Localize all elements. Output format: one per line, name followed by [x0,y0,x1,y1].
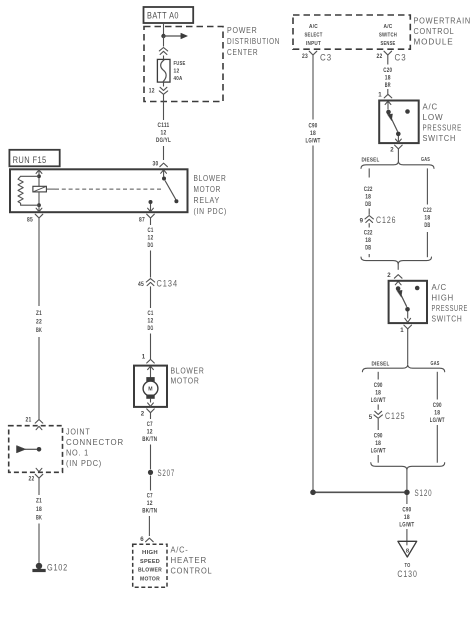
svg-text:S207: S207 [158,467,176,478]
svg-text:18: 18 [375,440,381,447]
svg-text:2: 2 [387,272,391,279]
svg-text:C7: C7 [147,421,153,428]
svg-text:Z1: Z1 [36,498,42,505]
svg-text:BLOWER: BLOWER [138,568,162,574]
svg-text:C7: C7 [147,493,153,500]
svg-text:MOTOR: MOTOR [171,376,200,386]
svg-text:C90: C90 [433,402,442,409]
svg-text:C90: C90 [374,382,383,389]
svg-text:(IN PDC): (IN PDC) [194,206,228,216]
svg-text:MODULE: MODULE [414,37,454,47]
svg-text:BK: BK [36,515,42,522]
svg-text:C90: C90 [309,123,318,130]
svg-text:RELAY: RELAY [194,195,221,205]
svg-text:HIGH: HIGH [142,550,158,556]
svg-text:C3: C3 [395,52,407,63]
svg-text:18: 18 [424,214,430,221]
svg-text:23: 23 [302,53,308,60]
svg-text:BLOWER: BLOWER [171,366,205,376]
svg-text:C22: C22 [364,186,373,193]
svg-text:12: 12 [149,88,155,95]
svg-text:12: 12 [147,500,153,507]
svg-text:LG/WT: LG/WT [399,521,414,528]
svg-text:GAS: GAS [421,157,430,163]
svg-text:RUN F15: RUN F15 [13,155,47,165]
svg-text:DG: DG [148,325,154,332]
svg-text:C90: C90 [374,433,383,440]
svg-text:DIESEL: DIESEL [362,157,380,163]
svg-text:12: 12 [161,129,167,136]
svg-text:HIGH: HIGH [432,293,455,303]
svg-text:1: 1 [142,354,146,361]
svg-text:22: 22 [36,319,42,326]
svg-text:18: 18 [385,74,391,81]
svg-text:DISTRIBUTION: DISTRIBUTION [227,36,280,46]
svg-text:18: 18 [434,409,440,416]
svg-text:18: 18 [375,389,381,396]
svg-text:CONTROL: CONTROL [171,566,213,576]
svg-text:DIESEL: DIESEL [372,361,390,367]
svg-text:GAS: GAS [431,361,440,367]
svg-text:8: 8 [406,549,410,555]
svg-text:C130: C130 [397,568,418,579]
svg-text:9: 9 [360,217,364,224]
svg-text:C134: C134 [157,278,179,289]
svg-text:12: 12 [148,234,154,241]
svg-text:C126: C126 [376,214,397,225]
svg-text:A/C: A/C [384,24,393,30]
svg-text:C90: C90 [402,507,411,514]
svg-text:LG/WT: LG/WT [306,137,321,144]
svg-text:SWITCH: SWITCH [432,314,463,324]
svg-text:LG/WT: LG/WT [371,447,386,454]
svg-text:18: 18 [365,193,371,200]
svg-text:SWITCH: SWITCH [423,133,457,143]
svg-text:2: 2 [390,147,394,154]
svg-text:5: 5 [369,414,373,421]
svg-text:HEATER: HEATER [171,555,208,565]
svg-text:DB: DB [365,244,371,251]
svg-text:BR: BR [385,82,391,89]
svg-text:21: 21 [26,417,32,424]
svg-text:45: 45 [138,281,144,288]
svg-text:22: 22 [377,53,383,60]
svg-text:PRESSURE: PRESSURE [432,303,469,313]
svg-text:C20: C20 [383,67,392,74]
svg-text:C111: C111 [158,122,170,129]
svg-text:CONNECTOR: CONNECTOR [66,437,124,447]
svg-text:Z1: Z1 [36,310,42,317]
svg-text:22: 22 [29,476,35,483]
svg-text:JOINT: JOINT [66,427,91,437]
svg-text:DB: DB [365,201,371,208]
svg-text:MOTOR: MOTOR [140,576,160,582]
svg-text:87: 87 [139,217,145,224]
svg-text:18: 18 [365,237,371,244]
svg-text:MOTOR: MOTOR [194,184,222,194]
svg-text:POWERTRAIN: POWERTRAIN [414,16,472,26]
svg-text:6: 6 [140,536,144,543]
svg-text:POWER: POWER [227,25,258,35]
svg-text:40A: 40A [174,76,183,82]
svg-text:A/C: A/C [432,282,448,292]
svg-text:A/C-: A/C- [171,545,189,555]
svg-text:C125: C125 [385,410,406,421]
svg-text:1: 1 [400,327,404,334]
svg-text:A/C: A/C [423,102,439,112]
svg-text:A/C: A/C [309,24,318,30]
svg-text:18: 18 [310,130,316,137]
svg-text:30: 30 [153,161,159,168]
svg-text:BLOWER: BLOWER [194,173,227,183]
svg-text:DB: DB [424,222,430,229]
svg-text:(IN PDC): (IN PDC) [66,458,102,468]
svg-text:BK: BK [36,327,42,334]
svg-text:12: 12 [147,428,153,435]
svg-text:BK/TN: BK/TN [142,436,157,443]
svg-text:CONTROL: CONTROL [414,26,455,36]
svg-text:INPUT: INPUT [306,41,321,47]
svg-text:PRESSURE: PRESSURE [423,123,463,133]
svg-text:LG/WT: LG/WT [430,417,445,424]
svg-text:12: 12 [148,317,154,324]
svg-text:FUSE: FUSE [174,61,186,67]
svg-text:SPEED: SPEED [140,559,160,565]
svg-text:C22: C22 [364,230,373,237]
svg-text:M: M [148,387,153,393]
svg-text:1: 1 [378,92,382,99]
svg-text:BK/TN: BK/TN [142,507,157,514]
svg-text:85: 85 [27,217,33,224]
svg-text:C3: C3 [320,52,332,63]
svg-text:SWITCH: SWITCH [379,33,397,39]
svg-text:LOW: LOW [423,112,444,122]
svg-text:DG: DG [148,242,154,249]
svg-text:NO. 1: NO. 1 [66,448,89,458]
svg-text:DG/YL: DG/YL [156,137,171,144]
svg-text:CENTER: CENTER [227,47,258,57]
svg-text:12: 12 [174,69,180,75]
svg-text:18: 18 [404,514,410,521]
svg-text:2: 2 [141,411,145,418]
svg-text:S120: S120 [415,487,433,498]
svg-text:C22: C22 [423,207,432,214]
svg-text:C1: C1 [148,227,154,234]
svg-text:SELECT: SELECT [305,33,323,39]
svg-text:BATT A0: BATT A0 [147,11,179,21]
svg-text:SENSE: SENSE [381,41,396,47]
svg-text:18: 18 [36,506,42,513]
svg-text:G102: G102 [47,563,68,573]
svg-text:LG/WT: LG/WT [371,397,386,404]
svg-text:C1: C1 [148,310,154,317]
